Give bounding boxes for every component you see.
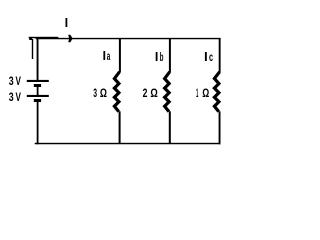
current arrow head on top wire [68,35,73,42]
wire top-left stub vertical [32,39,33,59]
svg-text:a: a [107,49,111,63]
battery cell B2 3V: long plate [27,95,49,97]
wire top-left doubled upper stroke [29,37,59,38]
svg-text:c: c [209,50,213,64]
svg-text:Ω: Ω [150,86,158,100]
label Ib [156,50,164,64]
svg-text:Ω: Ω [100,86,107,100]
resistor R3 1 ohm zigzag [214,72,219,112]
svg-text:b: b [160,50,164,64]
battery cell B2 3V: short thick plate [34,99,41,102]
resistor R2 2 ohm zigzag [165,72,170,112]
label Ic [205,50,213,64]
branch 3 right vertical lower segment [219,111,221,144]
label 3V cell B2 [9,90,22,104]
label 3V cell B1 [9,74,22,88]
svg-text:V: V [16,74,22,88]
wire between battery cells [37,87,39,95]
resistor R1 3 ohm zigzag [114,72,119,112]
branch 3 right vertical upper segment [219,38,221,72]
label I [66,18,68,27]
wire top horizontal main [36,38,221,39]
svg-text:2: 2 [143,86,148,100]
battery cell B1 3V: long plate [27,80,49,82]
wire left vertical (battery to bottom wire) [37,102,39,144]
branch 2 wire lower segment [169,111,171,143]
svg-text:Ω: Ω [202,86,209,100]
label 1 ohm [196,86,209,100]
svg-text:3: 3 [9,74,14,88]
svg-text:V: V [16,90,22,104]
svg-text:1: 1 [196,86,198,100]
branch 1 wire lower segment [119,111,121,143]
label Ia [103,49,110,63]
svg-text:3: 3 [93,86,97,100]
branch 1 wire upper segment [119,38,121,72]
branch 2 wire upper segment [169,38,171,72]
battery cell B1 3V: short thick plate [34,84,41,87]
label 3 ohm [93,86,107,100]
svg-text:3: 3 [9,90,14,104]
label 2 ohm [143,86,158,100]
wire bottom horizontal [35,143,221,144]
wire left vertical (top wire to battery) [37,39,39,81]
wire top-left corner elbow [29,38,32,40]
